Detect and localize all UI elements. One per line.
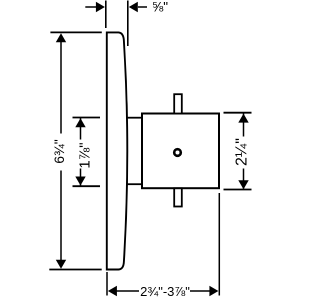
center screw circle <box>174 149 181 156</box>
extension line right <box>127 1 129 47</box>
up arrow <box>56 33 66 42</box>
right arrow + tail <box>138 6 147 8</box>
valve body (square) <box>142 114 219 189</box>
top tick <box>73 117 101 119</box>
bottom tab <box>174 188 182 206</box>
svg-text:2¾"-3⅞": 2¾"-3⅞" <box>140 284 190 299</box>
down arrow <box>56 260 66 269</box>
svg-text:1⅞": 1⅞" <box>77 142 94 168</box>
neck top line <box>127 117 142 119</box>
top tick <box>50 31 101 33</box>
bottom tick <box>49 269 101 271</box>
neck bottom line <box>127 183 143 185</box>
top tab <box>174 94 182 113</box>
top tick <box>224 112 252 114</box>
bottom tick <box>224 189 252 191</box>
down arrow <box>238 180 248 189</box>
up arrow <box>238 114 248 123</box>
dimension line lower segment <box>243 169 245 189</box>
svg-text:2¼": 2¼" <box>234 138 251 166</box>
dimension line lower segment <box>80 169 82 186</box>
dimension line lower segment <box>60 171 62 263</box>
escutcheon plate (side view) <box>107 32 127 269</box>
left arrow + tail <box>85 6 96 8</box>
up arrow <box>75 118 85 127</box>
dimension line upper segment <box>80 118 82 140</box>
extension line left <box>106 272 108 296</box>
right arrow + line <box>209 286 218 296</box>
extension line left <box>105 1 107 29</box>
dimension line upper segment <box>60 40 62 134</box>
bottom tick <box>73 185 101 187</box>
dimension line upper segment <box>243 114 245 137</box>
svg-text:6¾": 6¾" <box>51 139 67 163</box>
extension line right <box>218 193 220 296</box>
left arrow + line <box>108 286 117 296</box>
down arrow <box>75 177 85 186</box>
svg-text:⅝": ⅝" <box>152 0 168 15</box>
